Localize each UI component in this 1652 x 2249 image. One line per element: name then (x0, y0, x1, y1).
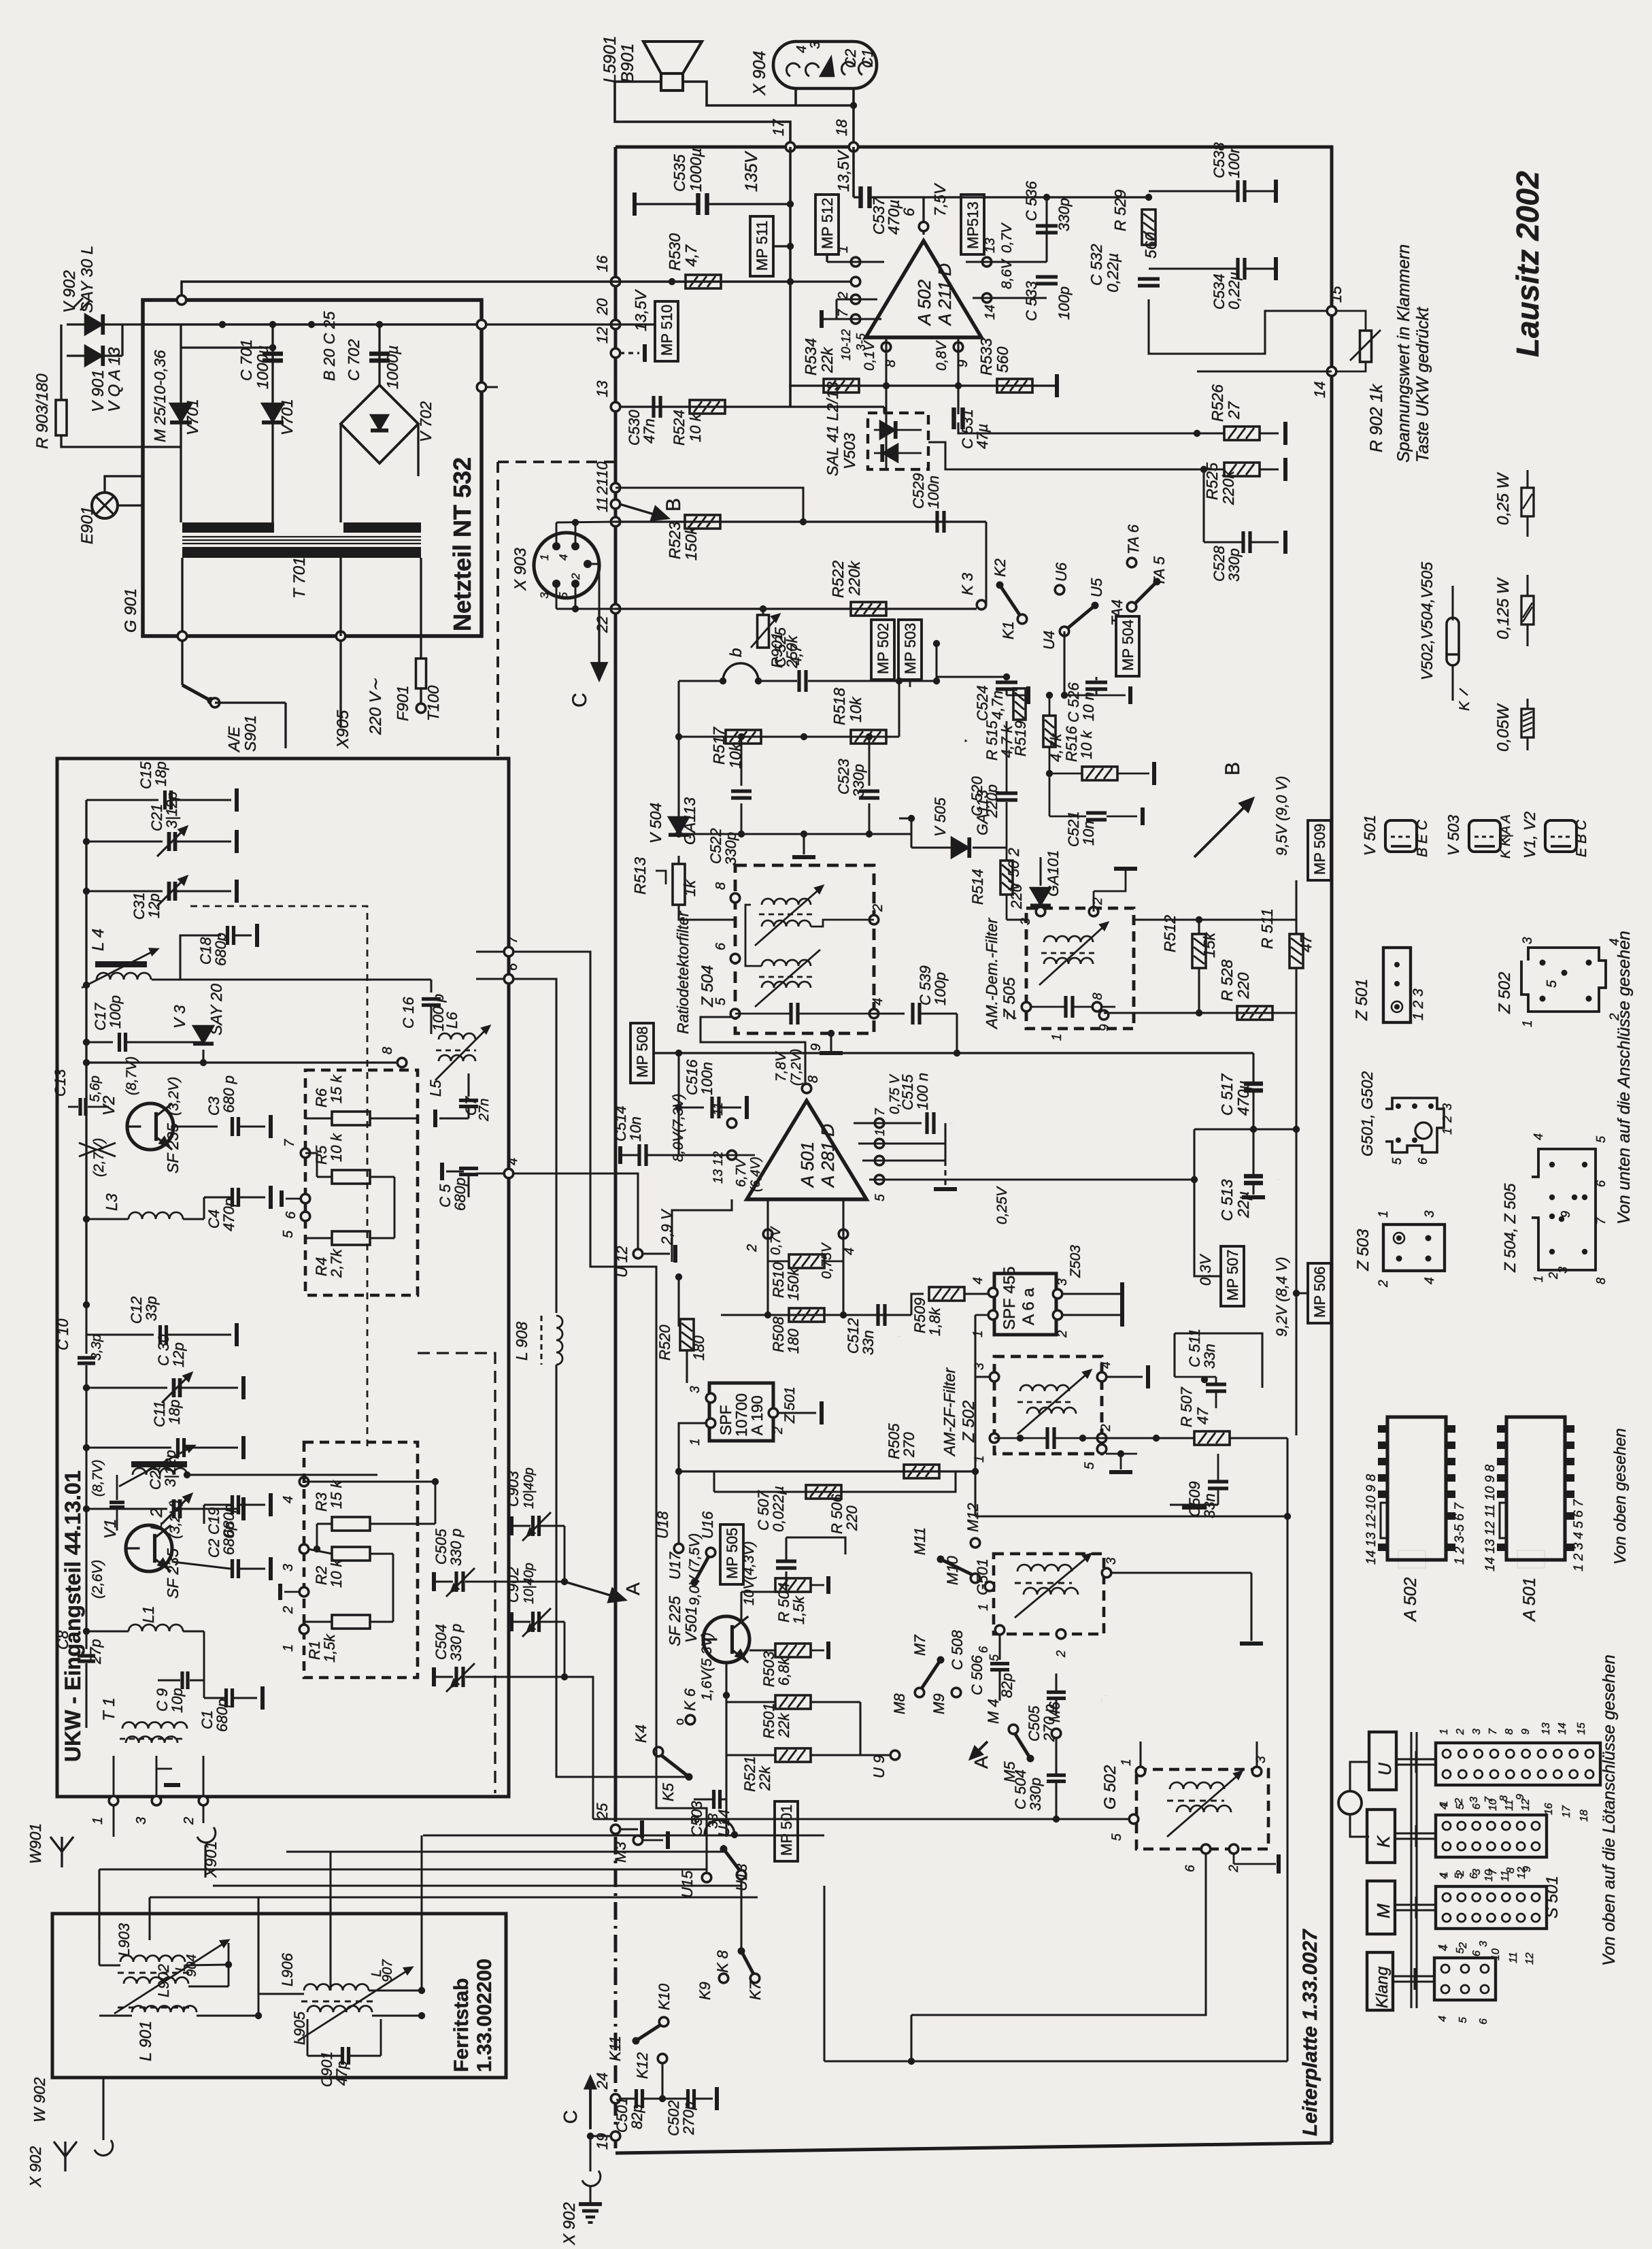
transistor V2 SF 235 (127, 1103, 173, 1150)
svg-text:C 517: C 517 (1218, 1073, 1236, 1116)
svg-text:6: 6 (1471, 1950, 1483, 1956)
svg-text:U 9: U 9 (871, 1755, 888, 1778)
capacitor C501 82p (635, 2089, 638, 2108)
svg-text:10 n: 10 n (1080, 692, 1097, 721)
Z504 pin 2 (869, 915, 879, 924)
svg-text:C 10: C 10 (54, 1318, 71, 1350)
arrow B at pin21 (620, 504, 645, 512)
svg-text:16: 16 (594, 255, 611, 272)
antenna bowtie left (79, 1143, 97, 1156)
svg-text:V701: V701 (278, 399, 296, 435)
resistor R503 6,8k (775, 1644, 811, 1657)
svg-text:560: 560 (994, 346, 1011, 373)
board pin 16 (611, 277, 620, 286)
G501 transformer (1017, 1565, 1072, 1571)
capacitor C13 5,6p (78, 1098, 82, 1116)
wire pin7 down gap to board (513, 952, 707, 1869)
svg-text:3: 3 (1468, 1797, 1480, 1803)
diode V901 lower (85, 346, 103, 366)
wires above R512 R511 (1134, 918, 1296, 920)
svg-text:C 506: C 506 (968, 1655, 985, 1695)
svg-text:R530: R530 (666, 233, 684, 271)
Z502 pin 4 (1097, 1372, 1107, 1382)
left loop wire (677, 681, 679, 834)
svg-text:330p: 330p (1226, 548, 1243, 582)
svg-text:270: 270 (900, 1432, 917, 1458)
svg-text:R 902 1k: R 902 1k (1367, 383, 1386, 452)
svg-text:X 904: X 904 (750, 51, 769, 96)
svg-text:1k: 1k (681, 879, 698, 897)
svg-text:Z 501: Z 501 (782, 1386, 798, 1424)
svg-text:Von oben auf die Lötanschlüsse: Von oben auf die Lötanschlüsse gesehen (1600, 1654, 1619, 1966)
svg-text:4: 4 (557, 554, 570, 561)
capacitor C536 330p (1045, 197, 1047, 262)
svg-text:1: 1 (836, 246, 851, 253)
coil L908 (556, 1316, 562, 1365)
testpoint MP 503 (898, 620, 922, 680)
svg-text:16: 16 (1543, 1803, 1555, 1815)
svg-text:47p: 47p (333, 2061, 350, 2086)
svg-text:SF 235: SF 235 (164, 1123, 182, 1173)
wire inner top rail (143, 323, 482, 326)
board pin 14 (1327, 367, 1336, 376)
G502 pin 1 (1136, 1767, 1145, 1776)
svg-text:1000µ: 1000µ (687, 148, 705, 192)
switch U15 U14 U13 (702, 1873, 711, 1882)
switch TA6 TA5 TA4 (1127, 558, 1136, 567)
svg-text:7: 7 (1005, 1012, 1019, 1020)
svg-text:10-12: 10-12 (839, 329, 853, 361)
capacitor C522 330p (741, 737, 743, 786)
svg-text:A 190: A 190 (748, 1395, 766, 1435)
svg-text:0,22µ: 0,22µ (1104, 253, 1122, 293)
wire pin6 A502 (922, 197, 924, 235)
X903 top wires to pin 11 (556, 522, 558, 546)
svg-text:K2: K2 (992, 559, 1009, 577)
svg-text:47µ: 47µ (974, 424, 991, 449)
svg-text:C 533: C 533 (1023, 281, 1040, 321)
svg-text:18: 18 (833, 119, 850, 136)
testpoint MP 505 (720, 1525, 743, 1584)
ground large below (1195, 1495, 1199, 1499)
svg-text:1: 1 (973, 1455, 987, 1463)
svg-text:6: 6 (1594, 1180, 1608, 1187)
svg-text:8: 8 (1504, 1729, 1515, 1735)
diode pair V503 SAL 41 L2/13 (868, 413, 928, 469)
transformer L906 L907 (304, 1984, 369, 1991)
resistor R528 220 (1237, 1006, 1272, 1020)
svg-text:X 902: X 902 (560, 2202, 579, 2246)
pinout Z504 Z505 (1532, 1149, 1596, 1270)
svg-text:1: 1 (971, 1330, 985, 1337)
svg-text:K11: K11 (607, 2035, 624, 2061)
svg-text:A/E: A/E (225, 726, 243, 753)
resistor R510 150k (789, 1254, 824, 1268)
label X905 (339, 640, 341, 728)
svg-text:4: 4 (971, 1277, 985, 1284)
capacitor C901 47p (341, 2047, 344, 2065)
wire rail second (182, 346, 273, 348)
svg-text:M6: M6 (1046, 1701, 1063, 1722)
ground mid (803, 834, 805, 854)
bus y2163 (679, 1470, 975, 1472)
capacitor C532 0,22u (1138, 277, 1160, 280)
svg-text:100p: 100p (932, 972, 949, 1005)
capacitor C516 100n (677, 1053, 679, 1107)
testpoint M3 (633, 1835, 643, 1845)
contact block Klang (1434, 1958, 1496, 2000)
UKW pin 7 right edge (504, 947, 513, 956)
svg-text:Z503: Z503 (1068, 1245, 1083, 1278)
svg-text:1: 1 (873, 1129, 888, 1136)
diode V3 SAY 20 (193, 1026, 214, 1044)
wire R529 branch to pin15 (1149, 299, 1332, 354)
resistor R525 220k (1224, 463, 1260, 476)
svg-text:3|12p: 3|12p (163, 791, 180, 829)
svg-text:V Q A 13: V Q A 13 (105, 347, 124, 412)
Z504 inner wires (745, 905, 762, 966)
svg-text:1: 1 (1437, 1944, 1449, 1950)
svg-text:X 903: X 903 (511, 548, 530, 591)
svg-text:1,5k: 1,5k (321, 1633, 338, 1663)
svg-text:680p: 680p (452, 1178, 469, 1211)
wire y995 to C524 region (937, 676, 1007, 678)
svg-text:Von oben gesehen: Von oben gesehen (1611, 1428, 1630, 1565)
svg-text:R517: R517 (710, 727, 728, 765)
board pin 12 (611, 348, 620, 358)
wire y290 right (924, 196, 1149, 198)
board pin 18 (849, 142, 858, 152)
wire pin6 down gap (513, 979, 556, 1313)
svg-text:5: 5 (713, 997, 728, 1005)
wire pin13 C530 R524 (620, 405, 884, 407)
coils L6 L5 (439, 1033, 475, 1039)
svg-text:M10: M10 (944, 1555, 961, 1585)
svg-text:1000µ: 1000µ (254, 346, 271, 389)
svg-text:Z 502: Z 502 (1496, 972, 1514, 1014)
vertical rail x266 in box (180, 324, 182, 522)
switch K4 K5 K6 (654, 1747, 663, 1756)
dashed box R6 R5 R4 (305, 1070, 418, 1295)
svg-text:2: 2 (281, 1606, 296, 1614)
svg-text:Z 503: Z 503 (1354, 1229, 1372, 1271)
capacitor C537 470u (858, 186, 863, 208)
SPF10700 pin 2 Z501 (769, 1408, 778, 1418)
key button M (1367, 1881, 1395, 1934)
G501 pin 3 (1102, 1568, 1111, 1578)
dashed boundary right of Netzteil (496, 462, 499, 756)
svg-text:R526: R526 (1209, 384, 1226, 422)
svg-text:4: 4 (1423, 1277, 1437, 1284)
pinout Z503 (1383, 1225, 1445, 1271)
resistor R522 220k (851, 602, 886, 616)
svg-text:SPF 455: SPF 455 (1000, 1267, 1019, 1330)
svg-text:L906: L906 (279, 1952, 296, 1986)
main board outline left solid part (614, 147, 618, 1804)
svg-text:7: 7 (282, 1139, 297, 1147)
svg-text:SAL 41 L2/13: SAL 41 L2/13 (824, 382, 841, 476)
svg-text:330 p: 330 p (448, 1529, 465, 1566)
svg-text:5: 5 (1545, 980, 1560, 988)
Netzteil right edge lower pin (477, 382, 486, 392)
arrow B upper (1194, 803, 1249, 857)
svg-text:20: 20 (594, 298, 611, 316)
resistor R4 2,7k (332, 1231, 370, 1245)
capacitor C526 10n (1085, 680, 1107, 684)
ground R533 (1055, 374, 1059, 397)
svg-text:2,7k: 2,7k (328, 1248, 345, 1278)
capacitor C505 270p (1047, 1690, 1066, 1694)
package legend V1 V2 (1545, 820, 1577, 852)
svg-text:8: 8 (1498, 1795, 1510, 1801)
svg-text:1 2 3-5 6 7: 1 2 3-5 6 7 (1453, 1502, 1467, 1565)
UKW pin 4 right edge (504, 1169, 513, 1178)
svg-text:R534: R534 (802, 338, 820, 376)
Z504 transformer upper (762, 899, 811, 905)
left rail upper (85, 800, 87, 1063)
svg-text:220k: 220k (1219, 470, 1237, 505)
svg-text:MP 509: MP 509 (1311, 824, 1328, 875)
svg-text:10|40p: 10|40p (522, 1467, 537, 1509)
svg-text:V503: V503 (841, 433, 858, 469)
L906 wires (369, 1990, 422, 1992)
a loop U14 (705, 1820, 735, 1835)
svg-text:K10: K10 (656, 1983, 673, 2010)
svg-text:U15: U15 (679, 1870, 696, 1898)
A502 pins 3-5 (851, 314, 860, 324)
K12 K11 K10 switches (658, 2054, 667, 2063)
svg-text:47: 47 (1297, 934, 1315, 952)
A501 pin 8 (802, 1084, 811, 1093)
Z505 pin 3 (1036, 907, 1045, 916)
wire V503 to y690 bus (928, 442, 1204, 469)
svg-text:10V(4,3V): 10V(4,3V) (741, 1541, 757, 1605)
svg-text:4: 4 (1099, 1361, 1113, 1369)
Z502 cap (1045, 1427, 1049, 1449)
svg-text:24: 24 (594, 2073, 611, 2090)
svg-text:7: 7 (873, 1107, 888, 1116)
capacitor C10 3,3p in rail (85, 1335, 87, 1354)
SPF10700 pin 1 (706, 1418, 715, 1428)
T1 to pins (113, 1756, 115, 1801)
pin 3 dashed (299, 1544, 309, 1554)
wire U13 down to K8 (740, 1879, 742, 1951)
svg-text:MP 506: MP 506 (1311, 1267, 1328, 1318)
svg-text:K: K (1373, 1835, 1394, 1848)
svg-text:2: 2 (1056, 1330, 1070, 1338)
svg-text:Ferritstab: Ferritstab (450, 1978, 473, 2072)
pin 8 on dashed box (397, 1058, 407, 1067)
resistor R2 10k (332, 1547, 370, 1561)
svg-text:9: 9 (1559, 1211, 1572, 1218)
wire W902 up to ferrite (102, 2078, 104, 2140)
capacitor C502 270p (686, 2089, 690, 2108)
X903 pin2 wire (588, 564, 599, 609)
resistor R5 10k (332, 1170, 370, 1184)
svg-text:L 4: L 4 (89, 929, 107, 951)
wire y1562 in UKW (86, 1061, 398, 1063)
svg-text:K4: K4 (633, 1725, 650, 1743)
svg-text:330 p: 330 p (448, 1624, 465, 1661)
svg-text:UKW - Eingangsteil 44.13.01: UKW - Eingangsteil 44.13.01 (61, 1470, 85, 1762)
svg-text:8: 8 (806, 1076, 821, 1083)
svg-text:M 4: M 4 (985, 1699, 1002, 1724)
svg-text:2: 2 (1457, 1942, 1469, 1949)
svg-text:V 504: V 504 (647, 803, 664, 844)
capacitor C512 33n (876, 1304, 879, 1326)
svg-text:18p: 18p (166, 1399, 183, 1425)
svg-text:2: 2 (569, 573, 582, 580)
svg-text:C 702: C 702 (345, 339, 363, 381)
svg-text:1: 1 (977, 1603, 991, 1611)
testpoint MP 506 (1308, 1263, 1331, 1323)
svg-text:C2: C2 (842, 49, 859, 68)
svg-text:U 12: U 12 (613, 1246, 630, 1278)
A501 pin 4 (839, 1229, 848, 1239)
wire C531 down to bus (958, 422, 1197, 433)
UKW pin 1 (109, 1796, 118, 1805)
svg-text:MP 507: MP 507 (1224, 1250, 1241, 1301)
svg-text:GA113: GA113 (974, 789, 991, 835)
capacitor C535 1000u (696, 193, 701, 215)
A501 pin 5 (875, 1175, 884, 1184)
filter Z505 AM-Dem box (1026, 908, 1134, 1029)
svg-text:13: 13 (983, 238, 998, 253)
svg-text:2: 2 (1440, 1116, 1454, 1123)
capacitor C529 100n (935, 511, 939, 533)
arrow C below pin22 (598, 609, 600, 663)
Z505 transformer (1044, 936, 1093, 942)
svg-text:0,22µ: 0,22µ (1226, 272, 1243, 310)
svg-text:R 528: R 528 (1218, 959, 1236, 1001)
A502 pin 8 (881, 342, 891, 352)
svg-text:1,6V(5,3V): 1,6V(5,3V) (699, 1633, 715, 1701)
UKW pin 2 (199, 1796, 208, 1805)
Z504 pin 6 (730, 954, 740, 963)
capacitor C521 10n (1049, 773, 1051, 816)
svg-text:6: 6 (1416, 1157, 1430, 1165)
svg-text:TA 6: TA 6 (1125, 524, 1142, 554)
svg-text:22: 22 (594, 616, 611, 633)
svg-text:V 505: V 505 (932, 797, 949, 837)
SPF455 pin 4 (988, 1288, 998, 1297)
capacitor C11 18p (86, 1446, 171, 1448)
svg-text:(8,7V): (8,7V) (90, 1460, 105, 1497)
A501 pin 7 (875, 1118, 884, 1128)
resistor R508 180 (789, 1308, 824, 1322)
A501 pin 12 13 (727, 1150, 737, 1160)
capacitor C507 0,022u (776, 1559, 796, 1563)
board pin 15 (1327, 306, 1336, 316)
svg-text:(8,7V): (8,7V) (124, 1056, 139, 1095)
svg-text:6,8k: 6,8k (775, 1656, 792, 1686)
svg-text:7,5V: 7,5V (931, 182, 949, 216)
capacitor C506 82p (998, 1634, 1000, 1660)
main board Leiterplatte outline top and right (616, 147, 1332, 2143)
svg-text:A 281 D: A 281 D (817, 1124, 838, 1188)
wire MP508 junction (675, 1050, 682, 1056)
pilot lamp circle (1338, 1791, 1362, 1814)
testpoint MP 502 (871, 620, 894, 680)
diode V701b (262, 403, 284, 422)
svg-text:1: 1 (90, 1817, 105, 1825)
capacitor C4 470p (231, 1188, 234, 1207)
key shaft Klang (1393, 1975, 1434, 1977)
svg-text:R525: R525 (1203, 463, 1221, 500)
svg-text:R523: R523 (666, 522, 684, 559)
svg-text:27p: 27p (87, 1639, 104, 1665)
antenna W901 (50, 1837, 73, 1852)
contact block M (1436, 1886, 1547, 1929)
LED marks (73, 298, 83, 307)
svg-text:A 6 a: A 6 a (1019, 1288, 1038, 1325)
vertical x1322 (898, 681, 900, 737)
svg-text:Z 501: Z 501 (1353, 979, 1371, 1021)
svg-text:1 2 3: 1 2 3 (1411, 988, 1426, 1020)
svg-text:4: 4 (1532, 1133, 1545, 1140)
package legend V503 (1469, 820, 1500, 852)
svg-text:6: 6 (977, 1646, 990, 1653)
G502 pin 2 (1229, 1844, 1238, 1854)
board pin 21 (611, 499, 620, 509)
diode V504 GA113 (669, 817, 689, 835)
svg-text:10: 10 (594, 461, 611, 478)
testpoint MP 512 (815, 195, 839, 254)
wire UKW pin2 down (203, 1805, 205, 1823)
svg-text:Taste UKW gedrückt: Taste UKW gedrückt (1413, 307, 1432, 463)
svg-text:U4: U4 (1041, 631, 1058, 650)
transistor V1 SF 235 (126, 1525, 172, 1571)
oscillator G501 box (994, 1554, 1104, 1634)
svg-text:11: 11 (594, 497, 611, 512)
vertical rail x558 (378, 324, 380, 385)
svg-text:R519: R519 (1012, 720, 1029, 756)
capacitor C702 1000u (369, 352, 390, 356)
trimmer C20 3/12p (86, 1507, 167, 1510)
A502 pin1 (851, 257, 860, 267)
svg-text:7,8V: 7,8V (773, 1051, 789, 1082)
coil L901 (118, 2006, 190, 2008)
vertical x1893 down (1286, 1438, 1288, 2061)
svg-text:14 13 12-10 9 8: 14 13 12-10 9 8 (1364, 1473, 1379, 1565)
svg-text:K: K (1457, 701, 1472, 711)
svg-text:5: 5 (873, 1194, 888, 1201)
antenna W902 X902 bottom left (54, 2142, 77, 2156)
svg-text:3: 3 (134, 1817, 149, 1825)
capacitor C513 22u (1244, 1174, 1263, 1179)
wire R520 down to SPF10700 (677, 1277, 679, 1327)
svg-text:4: 4 (794, 46, 809, 53)
svg-text:R 529: R 529 (1111, 189, 1129, 231)
Ferritstab box (52, 1914, 506, 2078)
svg-text:5: 5 (1110, 1833, 1124, 1841)
key shaft U (1396, 1758, 1436, 1760)
svg-text:0,8V: 0,8V (934, 340, 949, 371)
svg-text:8: 8 (713, 882, 728, 890)
G502 pin 6 (1201, 1844, 1211, 1854)
Z505 pin 7 (1022, 1002, 1031, 1012)
svg-text:4,7k: 4,7k (1047, 733, 1064, 762)
svg-text:3: 3 (1521, 937, 1535, 944)
svg-text:1000µ: 1000µ (384, 346, 401, 389)
switch M11 M12 M10 (937, 1556, 944, 1563)
svg-text:4: 4 (281, 1496, 296, 1503)
resistor R515 4,7k (1013, 688, 1026, 720)
svg-text:R514: R514 (969, 869, 986, 905)
small dashed cap 8,7V (109, 1501, 124, 1504)
svg-text:5: 5 (1083, 1462, 1097, 1469)
svg-text:MP 501: MP 501 (778, 1805, 795, 1856)
